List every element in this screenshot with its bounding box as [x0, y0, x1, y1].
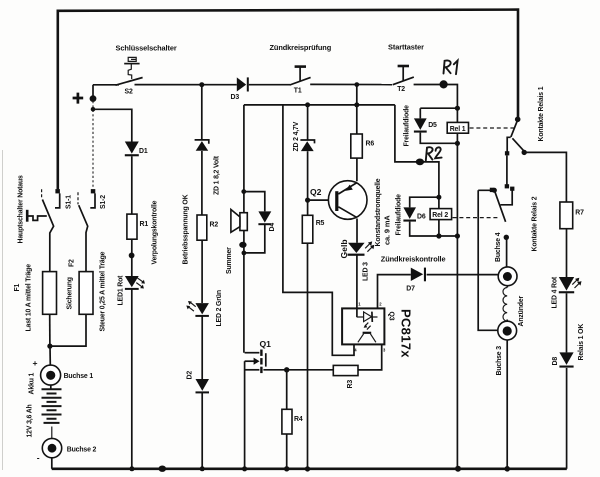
- svg-text:Starttaster: Starttaster: [388, 43, 424, 52]
- svg-text:D8: D8: [552, 357, 559, 366]
- resistor R3: [333, 365, 358, 375]
- svg-text:R7: R7: [575, 209, 584, 216]
- transistor Q2 PNP: [328, 181, 367, 220]
- LED1 red: [125, 276, 145, 290]
- svg-text:12V 3,6 Ah: 12V 3,6 Ah: [27, 404, 34, 437]
- wire D5 loop top: [420, 108, 457, 118]
- fuse F1: [43, 272, 57, 315]
- diode D2: [196, 379, 210, 393]
- wire LED4 to D8: [566, 293, 568, 352]
- terminal square relay2 hook top: [510, 187, 514, 191]
- wire branch to D1: [93, 109, 132, 141]
- freewheel diode D5: [414, 118, 427, 132]
- svg-text:Kontakte Relais 1: Kontakte Relais 1: [538, 86, 545, 141]
- svg-text:LED1 Rot: LED1 Rot: [118, 275, 125, 306]
- wire Q2 base lead: [308, 199, 336, 201]
- svg-text:Relais 1 OK: Relais 1 OK: [578, 324, 585, 361]
- MOSFET Q1: [245, 350, 266, 374]
- svg-text:ZD 1 8,2 Volt: ZD 1 8,2 Volt: [214, 155, 221, 195]
- wire dashed Rel2 to contact: [453, 217, 499, 219]
- wire R4 column: [286, 370, 288, 469]
- svg-text:Freilaufdiode: Freilaufdiode: [404, 105, 411, 147]
- wire Q2 emitter down to LED3: [356, 219, 358, 243]
- wire rail T1 to T2: [310, 83, 392, 85]
- svg-text:ca. 9 mA: ca. 9 mA: [382, 215, 391, 245]
- wire rail2 horizontal: [244, 104, 395, 106]
- node bus R4: [284, 466, 289, 471]
- svg-text:Q2: Q2: [310, 187, 322, 197]
- node bus main vertical: [455, 466, 461, 472]
- svg-text:Akku 1: Akku 1: [28, 372, 35, 394]
- svg-text:D2: D2: [187, 371, 194, 380]
- node rail ZD1 tap: [199, 82, 204, 87]
- svg-text:Rel 2: Rel 2: [432, 212, 448, 219]
- node R4 tap: [284, 367, 289, 372]
- svg-text:Kontakte Relais 2: Kontakte Relais 2: [531, 196, 538, 251]
- wire ZD2 column from rail2: [307, 105, 309, 140]
- node below summer blob: [239, 242, 246, 248]
- zener ZD1: [195, 140, 209, 151]
- wire Q1 source row to R3: [263, 369, 333, 371]
- wire D1 to R1: [131, 156, 133, 214]
- node D6 top tap: [436, 195, 441, 200]
- node rail2 R6 tap: [354, 102, 359, 107]
- svg-text:Konstandstromquelle: Konstandstromquelle: [375, 178, 382, 246]
- svg-text:Gelb: Gelb: [339, 239, 349, 258]
- svg-text:Buchse 2: Buchse 2: [67, 446, 97, 453]
- node bus Buchse3: [504, 466, 510, 472]
- wire Q1 gate-source left column to bus: [244, 361, 246, 469]
- svg-text:Verpolungskontrolle: Verpolungskontrolle: [151, 200, 158, 264]
- wire opto pin2 up and D7 row to Buchse 4: [378, 275, 498, 309]
- svg-text:LED 2 Grün: LED 2 Grün: [216, 290, 223, 326]
- svg-text:Betriebsspannung OK: Betriebsspannung OK: [183, 194, 190, 264]
- svg-text:Steuer 0,25 A mittel Träge: Steuer 0,25 A mittel Träge: [99, 251, 106, 331]
- relay coil box Rel 1: [447, 122, 468, 133]
- svg-text:R5: R5: [316, 220, 325, 227]
- wire R6 to Q2 collector: [356, 158, 358, 181]
- svg-text:Rel 1: Rel 1: [450, 126, 466, 133]
- relay1 contact blade: [511, 121, 518, 137]
- svg-text:-: -: [37, 453, 40, 463]
- wire link relay1 NC down to relay2 area: [506, 156, 508, 185]
- wire T1 junction drop to rail2: [356, 85, 358, 105]
- wire D4 branch bottom: [244, 225, 265, 253]
- resistor R7: [560, 202, 573, 229]
- battery Akku 1 plates: [42, 389, 62, 423]
- terminal square link bottom: [505, 184, 509, 188]
- svg-text:Buchse 4: Buchse 4: [495, 232, 502, 262]
- LED4 red: [559, 277, 582, 293]
- wire relay1 output to R7 column: [524, 152, 566, 202]
- svg-text:+: +: [33, 358, 38, 368]
- resistor R5: [302, 215, 313, 243]
- wire Summer column from rail2: [243, 105, 245, 213]
- optocoupler Q3 PC817x box: [342, 308, 384, 344]
- socket Buchse 2: [42, 438, 61, 457]
- wire S1-1 blade to F1: [42, 200, 53, 272]
- wire ZD2 to base node: [307, 151, 309, 215]
- wire Buchse3 down to bus: [506, 340, 508, 469]
- igniter coil Anzuender: [503, 288, 507, 322]
- resistor R4: [282, 409, 292, 434]
- socket Buchse 1: [41, 365, 61, 385]
- wire R2 to LED2: [201, 240, 203, 303]
- LED2 green: [186, 301, 209, 317]
- node D5 bottom: [455, 141, 460, 146]
- handwritten R1: [444, 60, 458, 74]
- node bus blob: [159, 466, 167, 472]
- wire summer output down to Q1 drain: [243, 231, 245, 353]
- svg-text:D3: D3: [231, 94, 240, 101]
- svg-text:Q3: Q3: [388, 312, 395, 321]
- node D4 bottom tap: [242, 251, 247, 256]
- svg-text:Freilaufdiode: Freilaufdiode: [395, 194, 402, 236]
- wire battery to Buchse2: [51, 427, 53, 439]
- key switch S2: [116, 57, 143, 85]
- pushbutton T2: [393, 66, 414, 85]
- svg-text:R6: R6: [366, 140, 375, 147]
- wire F2 bottom to join: [51, 314, 86, 346]
- svg-text:R1: R1: [140, 221, 149, 228]
- node mid R1-LED1: [129, 253, 135, 259]
- wire Buchse4 to coil: [506, 286, 508, 288]
- node fuse join: [47, 344, 52, 349]
- svg-text:Hauptschalter Notaus: Hauptschalter Notaus: [18, 175, 25, 244]
- svg-text:S2: S2: [125, 89, 133, 96]
- wire Buchse2 to bus: [51, 458, 53, 469]
- wire Rel2 coil bottom segment: [438, 197, 440, 236]
- node relay1 common: [515, 117, 521, 123]
- scan edge artifact left: [2, 150, 3, 470]
- svg-text:Summer: Summer: [226, 247, 233, 274]
- diode D4: [258, 211, 271, 225]
- svg-text:R2: R2: [210, 222, 219, 229]
- wire opto pin3 down to R3: [358, 344, 382, 370]
- wire R1 to LED1: [131, 239, 133, 276]
- wire opto pin4 return loop to rail2: [283, 105, 354, 355]
- wire dashed Rel1 to contact: [470, 127, 515, 129]
- socket Buchse 3: [498, 321, 517, 340]
- wire rail from S2 to D3: [93, 85, 237, 98]
- svg-text:Sicherung: Sicherung: [66, 277, 73, 309]
- wire coil to Buchse3 handled in parts: [506, 320, 508, 322]
- node relay1 output: [522, 150, 527, 155]
- svg-text:S1-2: S1-2: [100, 195, 107, 209]
- node Q2 base tap: [305, 198, 310, 203]
- diode D7: [411, 268, 426, 282]
- svg-text:R4: R4: [294, 416, 303, 423]
- svg-text:D6: D6: [417, 213, 426, 220]
- svg-text:PC817x: PC817x: [398, 309, 413, 358]
- svg-text:S1-1: S1-1: [65, 195, 72, 209]
- svg-text:R3: R3: [347, 380, 354, 389]
- node T2 output big dot: [440, 80, 448, 88]
- zener ZD2: [300, 140, 314, 151]
- svg-text:Buchse 1: Buchse 1: [64, 373, 94, 380]
- wire LED1 to bottom bus: [131, 289, 133, 469]
- wire F1 bottom to join: [49, 314, 51, 346]
- node bus D2: [200, 466, 205, 471]
- emergency stop actuator: [27, 210, 47, 222]
- wire R6 top: [356, 105, 358, 134]
- LED3 yellow: [348, 241, 375, 255]
- wire bottom bus: [52, 467, 567, 470]
- resistor R1: [127, 214, 137, 239]
- wire D5 loop bottom: [420, 133, 457, 144]
- terminal square relay2 common: [490, 188, 495, 192]
- svg-text:Schlüsselschalter: Schlüsselschalter: [116, 44, 177, 53]
- svg-text:Zündkreisprüfung: Zündkreisprüfung: [270, 43, 332, 52]
- dashes above S1-1 blade: [41, 189, 43, 198]
- node rail2 ZD2 tap: [305, 102, 310, 107]
- wire D4 branch top: [244, 192, 265, 212]
- svg-text:LED 4 Rot: LED 4 Rot: [551, 276, 558, 308]
- relay2 NO hook: [501, 189, 513, 205]
- relay1 NC bracket: [507, 137, 511, 152]
- wire ZD1 column top: [201, 85, 203, 140]
- svg-text:D5: D5: [428, 122, 437, 129]
- diode D8: [559, 352, 573, 367]
- terminal square relay1 NC foot: [505, 151, 509, 155]
- relay2 blade: [495, 191, 506, 222]
- freewheel diode D6: [403, 207, 416, 221]
- relay coil box Rel 2: [430, 209, 452, 220]
- node T1 drop on rail1: [354, 82, 359, 87]
- svg-text:D4: D4: [269, 223, 276, 232]
- wire D6 loop bottom to main vertical: [410, 222, 458, 236]
- svg-text:Anzünder: Anzünder: [518, 295, 525, 326]
- svg-text:LED 3: LED 3: [362, 262, 369, 281]
- wire D8 to bus corner: [566, 368, 568, 469]
- wire relay2 common row: [478, 189, 494, 191]
- node D5 top: [455, 106, 460, 111]
- fuse F2: [79, 272, 93, 315]
- wire R5 down to bus: [307, 243, 309, 469]
- svg-text:Buchse 3: Buchse 3: [496, 346, 503, 376]
- buzzer (Summer): [231, 210, 247, 233]
- wire Buchse1 to battery: [50, 385, 52, 389]
- node Rel2 feed big dot: [416, 159, 424, 166]
- wire rail T2 to corner, down main right vertical: [414, 85, 458, 469]
- node relay2 blade pivot: [492, 188, 497, 193]
- opto phototransistor: [358, 333, 376, 343]
- dashes above S1-2 blade: [77, 192, 79, 204]
- wire LED3 to opto pin1: [356, 255, 358, 317]
- wire plus node down to S1-2 (dotted): [92, 101, 94, 189]
- svg-text:F1: F1: [14, 283, 21, 291]
- wire join to Buchse1: [49, 346, 51, 365]
- node D4 top tap: [241, 189, 246, 194]
- wire terminal to Buchse4: [506, 239, 508, 267]
- pushbutton T1: [290, 67, 311, 85]
- node bus Q1: [242, 466, 247, 471]
- diode D3: [237, 77, 249, 91]
- handwritten R2: [426, 147, 442, 160]
- relay1 NO blade segment: [512, 138, 524, 151]
- svg-text:T2: T2: [397, 86, 405, 93]
- resistor R6: [351, 134, 363, 158]
- main switch S1-1 contact: [55, 189, 60, 208]
- wire rail2 right end down to Rel2 feed row: [395, 105, 439, 197]
- svg-text:Zündkreiskontrolle: Zündkreiskontrolle: [381, 254, 446, 263]
- node bus R5: [305, 466, 310, 471]
- wire D6 loop top: [410, 197, 439, 207]
- svg-text:D1: D1: [139, 148, 148, 155]
- resistor R2: [197, 215, 207, 240]
- node plus S2 input: [90, 95, 97, 102]
- main switch S1-2 contact: [90, 189, 95, 208]
- opto internal LED: [357, 312, 378, 330]
- svg-text:Last 10 A mittel Träge: Last 10 A mittel Träge: [25, 264, 32, 332]
- node bus LED1: [129, 466, 134, 471]
- node Buchse4 top terminal: [504, 235, 509, 240]
- svg-text:F2: F2: [68, 259, 75, 267]
- svg-text:D7: D7: [406, 286, 415, 293]
- wire left bypass vertical to Buchse 3: [478, 190, 498, 330]
- plus symbol: [73, 93, 84, 104]
- svg-text:Q1: Q1: [260, 339, 272, 349]
- wire top feed from S1-1 up and across to Kontakte Relais 1: [58, 10, 518, 190]
- node main vertical joins D6 row: [455, 233, 460, 238]
- svg-text:ZD 2 4,7V: ZD 2 4,7V: [293, 121, 300, 151]
- node D1 branch: [91, 107, 96, 112]
- wire R7 to LED4: [566, 229, 568, 277]
- socket Buchse 4: [498, 267, 517, 286]
- wire D2 to bus: [201, 393, 203, 469]
- wire LED2 to D2: [201, 317, 203, 380]
- node D6 bottom: [436, 233, 441, 238]
- svg-text:T1: T1: [294, 88, 302, 95]
- wire ZD1 to R2: [201, 151, 203, 215]
- diode D1: [125, 142, 139, 157]
- wire rail D3 to T1: [249, 84, 290, 86]
- wire S1-2 blade to F2: [79, 205, 88, 271]
